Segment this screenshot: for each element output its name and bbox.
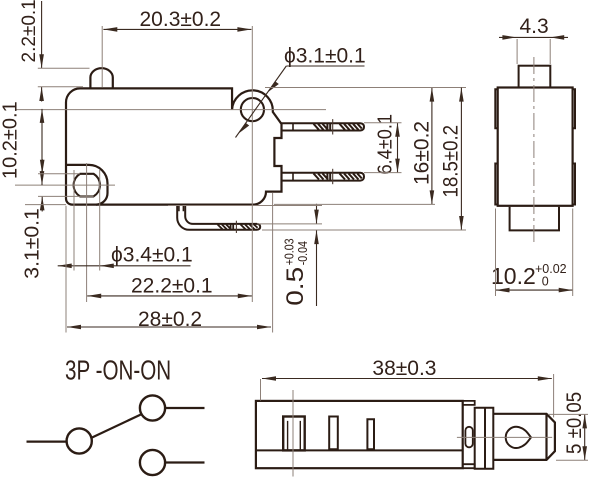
svg-text:+0.03: +0.03 xyxy=(283,238,297,265)
svg-text:ϕ3.4±0.1: ϕ3.4±0.1 xyxy=(111,244,193,267)
svg-text:3.1±0.1: 3.1±0.1 xyxy=(21,208,43,279)
label phi3.4±0.1 with leader xyxy=(58,170,193,271)
dimension 16±0.2 (rotated) xyxy=(265,88,466,205)
common terminal hatching xyxy=(218,224,258,230)
bottom view pin oval on body edge xyxy=(465,427,472,448)
svg-text:20.3±0.2: 20.3±0.2 xyxy=(140,8,222,31)
dimension 18.5±0.2 (rotated) xyxy=(262,88,466,230)
terminal blade NO (upper right) xyxy=(282,123,365,130)
dimension 6.4±0.1 (rotated) xyxy=(364,114,402,175)
wire, upper throw lead xyxy=(165,407,205,409)
bottom view terminal slot 2 xyxy=(329,417,338,450)
common terminal, L-shaped, bottom xyxy=(177,205,260,230)
blade NO hatching xyxy=(314,123,362,130)
node: lower throw circle xyxy=(140,450,165,475)
blade NC hatching xyxy=(314,173,362,180)
bottom view terminal slot 1 (common) xyxy=(283,417,305,451)
mounting hole phi3.1 top-right xyxy=(241,98,264,121)
svg-text:10.2: 10.2 xyxy=(491,263,536,289)
svg-text:3P -ON-ON: 3P -ON-ON xyxy=(65,356,171,387)
bottom view plunger tip face line xyxy=(545,414,547,460)
common terminal center tick xyxy=(235,221,237,233)
plunger button (front view) xyxy=(90,68,112,88)
dimension 4.3 xyxy=(499,15,568,64)
blade NO center tick xyxy=(332,119,334,134)
dimension 38±0.3 xyxy=(261,357,554,417)
terminal blade NC (lower right) xyxy=(282,173,365,181)
dimension 22.2±0.1 xyxy=(87,275,252,299)
side view vertical centerline (dash-dot) xyxy=(533,57,535,243)
side view body xyxy=(498,88,573,206)
centerline / extension through phi3.1 hole (vertical) xyxy=(251,26,253,302)
dimension 3.1±0.1 (left, rotated) xyxy=(21,159,94,279)
dimension 10.2±0.1 (left, rotated) xyxy=(0,101,44,185)
svg-text:0.5: 0.5 xyxy=(281,267,309,306)
side view plunger button xyxy=(519,66,551,88)
dimension 10.2 +0.02/0 xyxy=(491,209,573,297)
bottom view collar xyxy=(475,408,494,469)
centerline / extension through phi3.4 hole (vertical) xyxy=(86,163,88,302)
bottom view teardrop hole xyxy=(506,427,531,448)
switch lever (common to upper throw) xyxy=(91,415,141,438)
side view right ribs xyxy=(573,89,575,204)
switch body outline (front view) xyxy=(66,88,282,204)
svg-text:22.2±0.1: 22.2±0.1 xyxy=(131,275,213,298)
bottom view terminal slot 3 xyxy=(367,419,374,449)
bottom view right-end top tab xyxy=(463,401,475,405)
svg-text:16±0.2: 16±0.2 xyxy=(411,121,434,185)
svg-text:4.3: 4.3 xyxy=(520,15,549,38)
node: common pole circle xyxy=(67,428,92,453)
dimension 28±0.2 xyxy=(66,193,273,333)
bottom view base plate line xyxy=(256,449,463,451)
side view left ribs xyxy=(495,89,497,204)
centerline through phi3.1 hole (horizontal) xyxy=(15,109,326,111)
bottom view horizontal centerline xyxy=(457,436,552,438)
svg-text:18.5±0.2: 18.5±0.2 xyxy=(440,125,463,198)
bottom view plunger xyxy=(493,414,555,460)
slot 1 inner lines xyxy=(288,421,301,451)
blade NO inner divider xyxy=(292,123,294,130)
dimension 0.5 +0.03/-0.04 (rotated) xyxy=(168,204,322,306)
boss around mounting hole, bottom-left xyxy=(66,165,108,205)
svg-text:ϕ3.1±0.1: ϕ3.1±0.1 xyxy=(284,45,366,68)
blade NC inner divider xyxy=(292,173,294,181)
svg-text:5 ±0.05: 5 ±0.05 xyxy=(563,392,586,454)
svg-text:+0.02: +0.02 xyxy=(535,262,567,276)
dimension 5±0.05 (rotated) xyxy=(548,392,588,460)
svg-text:-0.04: -0.04 xyxy=(296,241,310,266)
bottom view body xyxy=(256,401,463,468)
svg-text:0: 0 xyxy=(542,275,549,289)
blade NC center tick xyxy=(332,169,334,184)
common terminal neck stubs xyxy=(179,205,184,211)
centerline through phi3.4 hole (horizontal) xyxy=(15,184,115,186)
svg-text:10.2±0.1: 10.2±0.1 xyxy=(0,101,22,179)
wire, common lead xyxy=(27,441,68,443)
slot 1 centerline xyxy=(292,390,294,477)
bottom view right-end bottom tab xyxy=(463,464,475,468)
dimension 20.3±0.2 xyxy=(102,8,251,87)
label phi3.1±0.1 with leader xyxy=(236,45,366,138)
node: upper throw circle xyxy=(140,395,165,420)
svg-text:38±0.3: 38±0.3 xyxy=(372,357,436,380)
svg-text:2.2±0.1: 2.2±0.1 xyxy=(19,0,40,63)
wire, lower throw lead xyxy=(165,461,205,463)
mounting hole phi3.4 (double-D) bottom-left xyxy=(74,174,100,197)
side view bottom terminal block xyxy=(510,207,559,231)
dimension 2.2±0.1 (left, rotated) xyxy=(19,0,90,102)
